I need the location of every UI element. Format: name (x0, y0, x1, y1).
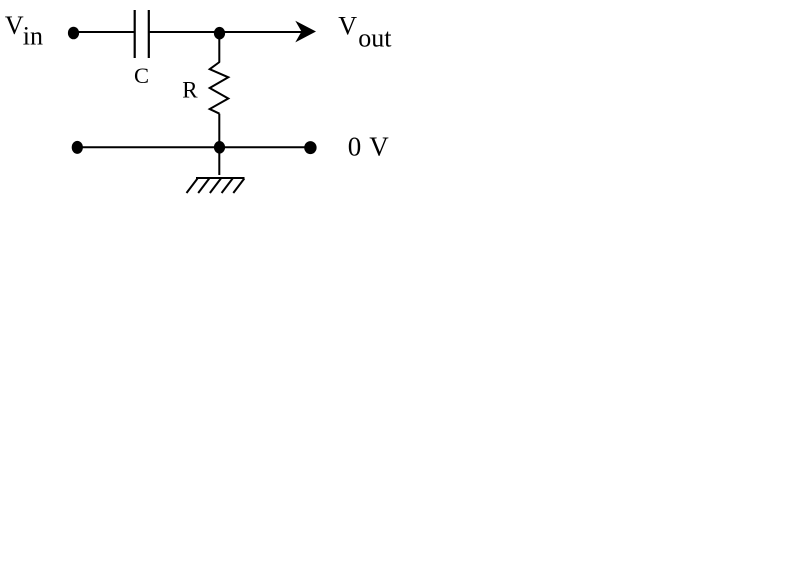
node Vout label (338, 12, 392, 53)
svg-text:0: 0 (348, 132, 362, 162)
node junction dot at top of resistor (214, 27, 225, 40)
ground symbol horizontal bar (196, 177, 245, 179)
wire capacitor right plate to output arrow (149, 31, 306, 33)
svg-text:out: out (358, 24, 392, 53)
resistor R zigzag (210, 62, 229, 114)
node junction dot at ground rail (214, 141, 225, 154)
node ground rail right terminal dot (304, 141, 316, 154)
node ground rail left terminal dot (72, 141, 83, 154)
svg-text:V: V (338, 12, 357, 41)
capacitor C right plate (148, 10, 150, 58)
svg-text:V: V (369, 132, 389, 162)
wire ground rail (77, 146, 310, 148)
ground symbol hatch 4 (222, 179, 233, 194)
svg-text:C: C (134, 63, 149, 88)
svg-text:V: V (5, 11, 24, 40)
capacitor C left plate (134, 10, 136, 58)
wire node to resistor top (218, 33, 220, 63)
wire resistor bottom to ground rail (218, 114, 220, 148)
svg-text:in: in (23, 21, 43, 50)
svg-text:R: R (182, 78, 198, 103)
wire node to ground symbol (218, 147, 220, 175)
wire Vin dot to capacitor left plate (74, 31, 135, 33)
ground symbol hatch 3 (210, 179, 221, 194)
ground symbol hatch 2 (198, 179, 209, 194)
arrowhead output (295, 21, 316, 43)
ground symbol hatch 5 (233, 179, 244, 194)
ground symbol hatch 1 (187, 179, 198, 194)
node Vin label (5, 11, 43, 51)
node Vin terminal dot (68, 27, 79, 40)
